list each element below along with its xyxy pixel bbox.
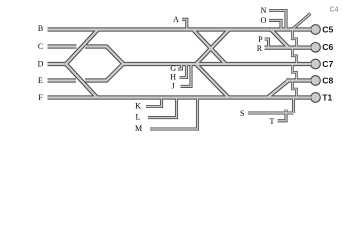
wire E stub — [48, 78, 77, 82]
hook T — [278, 110, 287, 121]
wire S — [248, 98, 294, 114]
wire C8 feeder — [286, 78, 311, 82]
crossover leg B-D — [193, 30, 226, 65]
svg-text:H: H — [170, 73, 176, 82]
diagonal D to B — [66, 30, 98, 65]
hook A — [182, 19, 187, 29]
wire B (light fill layer) — [48, 28, 312, 30]
svg-text:R: R — [257, 44, 263, 53]
svg-text:O: O — [261, 16, 267, 25]
joint C8/T1 — [292, 81, 296, 98]
hook J — [181, 64, 192, 86]
svg-text:J: J — [171, 82, 174, 91]
svg-text:C4: C4 — [330, 6, 339, 13]
svg-text:E: E — [38, 76, 43, 85]
wire C6 feeder — [265, 45, 312, 49]
diagonal F to C8 — [268, 81, 289, 98]
svg-text:M: M — [135, 124, 142, 133]
svg-text:S: S — [240, 109, 244, 118]
hook P — [265, 39, 269, 48]
svg-text:L: L — [136, 113, 141, 122]
svg-text:C6: C6 — [322, 42, 333, 52]
hook N — [269, 11, 286, 30]
svg-text:K: K — [135, 102, 141, 111]
wire D stub — [48, 62, 68, 66]
diagonal B to C6 — [271, 30, 289, 48]
hook K — [146, 98, 162, 107]
svg-text:B: B — [38, 24, 43, 33]
svg-text:A: A — [173, 15, 179, 24]
svg-text:P: P — [258, 35, 263, 44]
wire F — [48, 95, 312, 99]
hook M — [150, 98, 198, 130]
joint C7/C8 — [292, 64, 296, 81]
hook L — [148, 98, 177, 118]
terminal circle C5 — [311, 25, 321, 35]
terminal circle T1 — [311, 93, 321, 103]
hook G — [178, 64, 182, 69]
svg-text:C7: C7 — [322, 59, 333, 69]
svg-text:C: C — [38, 42, 43, 51]
joint B/C6 — [292, 30, 296, 48]
terminal circle C7 — [311, 59, 321, 69]
crossover leg D-F — [196, 64, 229, 98]
joint C6/C7 — [292, 48, 296, 64]
terminal circle C8 — [311, 76, 321, 86]
crossover leg D-B — [196, 30, 229, 65]
wire B (dark outline layer) — [48, 27, 312, 31]
svg-text:C5: C5 — [322, 24, 333, 34]
center wire D — [122, 62, 311, 66]
wire E right segment — [85, 64, 123, 81]
svg-text:T1: T1 — [322, 92, 332, 102]
svg-text:N: N — [261, 6, 267, 15]
svg-text:G: G — [170, 64, 176, 73]
hook O — [269, 20, 281, 29]
svg-text:F: F — [38, 93, 43, 102]
svg-text:T: T — [270, 117, 275, 126]
stub C4 — [292, 14, 311, 30]
hook H — [180, 64, 187, 78]
wire C stub — [48, 44, 77, 48]
svg-text:D: D — [38, 60, 44, 69]
diagonal D to F — [66, 64, 97, 98]
wire C right segment — [85, 47, 124, 65]
svg-text:C8: C8 — [322, 75, 333, 85]
terminal circle C6 — [311, 43, 321, 53]
